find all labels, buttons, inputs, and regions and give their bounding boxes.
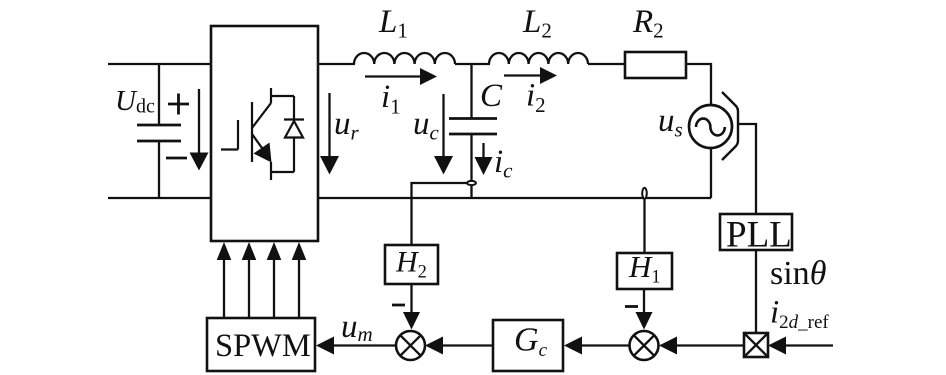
wire uc tap to H2 <box>412 183 468 245</box>
svg-text:sinθ: sinθ <box>770 255 826 292</box>
PLL box <box>720 214 792 250</box>
wire bottom rail left <box>108 197 212 199</box>
arrow ur <box>320 93 339 175</box>
wire source bottom <box>710 149 712 198</box>
arrow uc <box>434 94 453 175</box>
svg-text:ur: ur <box>334 106 360 145</box>
arrow summer to SPWM <box>316 337 396 355</box>
svg-text:us: us <box>658 103 683 142</box>
svg-text:um: um <box>341 309 373 346</box>
transistor IGBT body bar <box>251 102 253 162</box>
svg-text:H1: H1 <box>628 249 661 287</box>
svg-text:H2: H2 <box>395 246 427 283</box>
svg-text:i2d_ref: i2d_ref <box>770 295 829 334</box>
capacitor Udc branch top lead <box>158 64 160 125</box>
wire L1 to L2 node <box>455 63 490 65</box>
SPWM box <box>207 318 315 371</box>
svg-text:L2: L2 <box>522 4 552 43</box>
svg-text:i2: i2 <box>526 78 546 118</box>
svg-text:R2: R2 <box>632 4 664 43</box>
gate drive line 1 <box>217 242 232 318</box>
capacitor Udc bottom lead <box>158 141 160 198</box>
block H1 <box>617 253 672 289</box>
block H2 <box>385 245 438 284</box>
capacitor C plates <box>449 119 497 135</box>
transistor IGBT gate lead <box>221 120 238 150</box>
transistor IGBT collector <box>252 88 294 128</box>
wire bottom rail right <box>318 197 711 199</box>
capacitor C top lead <box>470 64 472 119</box>
svg-text:Udc: Udc <box>115 85 155 118</box>
pickup bracket <box>722 92 738 160</box>
svg-text:uc: uc <box>413 106 440 145</box>
inductor L1 <box>354 53 455 64</box>
inverter box <box>211 26 318 241</box>
svg-text:Gc: Gc <box>514 322 548 361</box>
node uc tap ellipse <box>467 181 476 185</box>
diode antiparallel <box>284 96 304 172</box>
capacitor C bottom lead <box>470 134 472 198</box>
inductor L2 <box>489 53 588 64</box>
summer right circle X <box>630 331 659 360</box>
arrow H1 to summer <box>636 289 653 330</box>
arrow i2 <box>504 67 557 84</box>
wire rail to H1 <box>643 199 645 254</box>
source us circle <box>689 105 732 148</box>
block Gc <box>493 320 563 371</box>
minus sign H1 <box>625 305 638 308</box>
gate drive line 2 <box>242 242 257 318</box>
minus sign H2 <box>392 304 405 307</box>
arrow summer right to Gc <box>564 337 630 355</box>
svg-text:i1: i1 <box>381 79 401 119</box>
source us sine <box>696 119 725 136</box>
wire R2 to source <box>686 64 711 105</box>
summer left circle X <box>396 331 425 360</box>
arrow input reference <box>768 337 833 355</box>
wire L2 to R2 <box>588 63 625 65</box>
resistor R2 <box>625 52 686 78</box>
wire top rail left <box>108 63 212 65</box>
svg-text:PLL: PLL <box>726 215 792 256</box>
arrow Udc voltage <box>190 89 209 171</box>
node i2 sense ellipse <box>642 188 647 199</box>
multiplier box with X <box>744 333 768 357</box>
svg-text:C: C <box>480 78 503 114</box>
arrow H2 to summer <box>403 284 420 330</box>
svg-text:L1: L1 <box>378 4 408 43</box>
plus sign <box>168 94 189 115</box>
wire bracket to PLL <box>738 124 756 214</box>
svg-text:SPWM: SPWM <box>215 328 311 364</box>
wire PLL to multiplier <box>755 250 757 333</box>
svg-text:ic: ic <box>494 144 513 183</box>
wire top rail to L1 <box>318 63 355 65</box>
arrow Gc to summer left <box>425 337 493 355</box>
arrow i1 <box>365 68 437 85</box>
gate drive line 3 <box>267 242 282 318</box>
capacitor Udc plates <box>137 125 181 141</box>
minus sign <box>166 157 187 160</box>
arrow multiplier to summer right <box>659 337 744 355</box>
gate drive line 4 <box>292 242 307 318</box>
transistor IGBT emitter with arrow <box>252 134 294 180</box>
arrow ic <box>475 143 493 175</box>
